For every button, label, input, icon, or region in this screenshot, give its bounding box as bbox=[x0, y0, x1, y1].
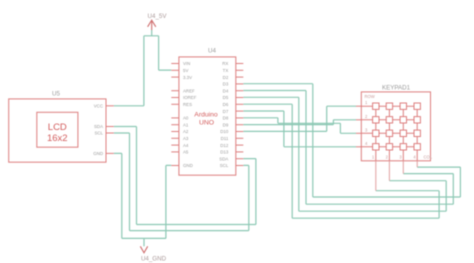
wire GND net: LCD GND down to bottom bus bbox=[114, 153, 122, 238]
svg-text:D5: D5 bbox=[223, 95, 229, 100]
svg-text:KEYPAD1: KEYPAD1 bbox=[382, 85, 411, 92]
wire D8 to keypad ROW3 bbox=[243, 118, 356, 134]
pin D7 bbox=[236, 110, 244, 112]
pin RES bbox=[171, 103, 179, 105]
pin SDA bbox=[106, 126, 114, 128]
svg-text:GND: GND bbox=[183, 163, 193, 168]
key squares bbox=[373, 103, 421, 150]
svg-text:AREF: AREF bbox=[183, 88, 195, 93]
svg-text:A2: A2 bbox=[183, 129, 189, 134]
row pin 2 bbox=[356, 119, 361, 121]
svg-text:UNO: UNO bbox=[199, 120, 214, 127]
wire 5V net: arrow stem to junction bbox=[144, 30, 159, 36]
svg-text:TX: TX bbox=[223, 68, 229, 73]
pin D8 bbox=[236, 117, 244, 119]
pin GND bbox=[106, 152, 114, 154]
pin SDA bbox=[236, 158, 244, 160]
wire D3 to keypad COL4 bbox=[243, 84, 460, 197]
pin A1 bbox=[171, 124, 179, 126]
svg-text:D6: D6 bbox=[223, 102, 229, 107]
pin D4 bbox=[236, 90, 244, 92]
svg-text:3.3V: 3.3V bbox=[183, 75, 192, 80]
wire D6 to keypad COL1 bbox=[243, 104, 439, 218]
wire GND net: bottom bus bbox=[122, 237, 166, 239]
wire 5V net: junction down to Arduino 5V pin bbox=[159, 36, 172, 70]
svg-text:16x2: 16x2 bbox=[47, 133, 68, 144]
svg-text:A3: A3 bbox=[183, 136, 189, 141]
svg-text:A5: A5 bbox=[183, 150, 189, 155]
svg-text:U4_GND: U4_GND bbox=[141, 256, 167, 263]
pin AREF bbox=[171, 90, 179, 92]
wire D5 to keypad COL2 bbox=[243, 97, 446, 211]
svg-text:SCL: SCL bbox=[94, 131, 103, 136]
wire D4 to keypad COL3 bbox=[243, 91, 453, 205]
wire GND net: riser up to Arduino GND pin bbox=[166, 165, 171, 238]
pin D12 bbox=[236, 144, 244, 146]
svg-text:D10: D10 bbox=[220, 129, 229, 134]
svg-text:U4: U4 bbox=[208, 48, 216, 55]
row pin 1 bbox=[356, 105, 361, 107]
power U4_5V bbox=[148, 13, 168, 30]
pin 3.3V bbox=[171, 76, 179, 78]
svg-text:LCD: LCD bbox=[48, 122, 67, 133]
pin VCC bbox=[106, 105, 114, 107]
col pin 2 bbox=[388, 161, 390, 181]
svg-text:VIN: VIN bbox=[183, 61, 190, 66]
wire GND net: stem to U4_GND arrow bbox=[143, 238, 145, 246]
pin D11 bbox=[236, 137, 244, 139]
svg-text:IOREF: IOREF bbox=[183, 95, 197, 100]
pin D10 bbox=[236, 131, 244, 133]
row pin 3 bbox=[356, 132, 361, 134]
pin A4 bbox=[171, 144, 179, 146]
wire D7 to keypad ROW4 bbox=[243, 111, 356, 147]
pin A2 bbox=[171, 131, 179, 133]
LCD U5 bbox=[9, 91, 114, 163]
pin D6 bbox=[236, 103, 244, 105]
svg-text:D13: D13 bbox=[220, 150, 229, 155]
svg-text:U5: U5 bbox=[52, 91, 60, 98]
pin D3 bbox=[236, 83, 244, 85]
svg-text:D12: D12 bbox=[220, 143, 229, 148]
svg-text:RX: RX bbox=[222, 61, 228, 66]
svg-text:SDA: SDA bbox=[94, 124, 103, 129]
col pin 4 bbox=[416, 161, 418, 167]
keypad row/col matrix lines bbox=[361, 106, 417, 147]
svg-text:A0: A0 bbox=[183, 116, 189, 121]
wire SCL net: Arduino SCL to LCD SCL bbox=[114, 133, 249, 231]
pin D13 bbox=[236, 151, 244, 153]
svg-text:5V: 5V bbox=[183, 68, 188, 73]
svg-text:SDA: SDA bbox=[219, 156, 228, 161]
pin GND bbox=[171, 165, 179, 167]
wire D9 to keypad ROW2 bbox=[243, 120, 356, 125]
svg-text:VCC: VCC bbox=[94, 104, 103, 109]
svg-text:U4_5V: U4_5V bbox=[148, 13, 168, 20]
svg-text:GND: GND bbox=[93, 151, 103, 156]
svg-text:D9: D9 bbox=[223, 122, 229, 127]
pin TX bbox=[236, 69, 244, 71]
pin A3 bbox=[171, 137, 179, 139]
svg-text:D2: D2 bbox=[223, 75, 229, 80]
pin 5V bbox=[171, 69, 179, 71]
svg-text:ROW: ROW bbox=[365, 94, 375, 99]
svg-text:RES: RES bbox=[183, 102, 192, 107]
pin SCL bbox=[106, 132, 114, 134]
col pin 3 bbox=[402, 161, 404, 174]
pin IOREF bbox=[171, 97, 179, 99]
pin A0 bbox=[171, 117, 179, 119]
Arduino UNO U4 bbox=[171, 48, 243, 176]
svg-text:D7: D7 bbox=[223, 109, 229, 114]
svg-text:D8: D8 bbox=[223, 116, 229, 121]
svg-text:COL: COL bbox=[424, 154, 433, 159]
svg-text:A1: A1 bbox=[183, 122, 189, 127]
wire D10 to keypad ROW1 bbox=[243, 106, 356, 131]
pin D5 bbox=[236, 97, 244, 99]
power U4_GND bbox=[140, 246, 166, 262]
keypad KEYPAD1 bbox=[356, 85, 433, 191]
svg-text:D11: D11 bbox=[221, 136, 229, 141]
pin RX bbox=[236, 63, 244, 65]
col pin 1 bbox=[375, 161, 377, 191]
pin VIN bbox=[171, 63, 179, 65]
svg-text:A4: A4 bbox=[183, 143, 189, 148]
pin D2 bbox=[236, 76, 244, 78]
wire SDA net: Arduino SDA to LCD SDA bbox=[114, 127, 256, 225]
pin A5 bbox=[171, 151, 179, 153]
row pin 4 bbox=[356, 146, 361, 148]
svg-text:D4: D4 bbox=[223, 88, 229, 93]
svg-text:SCL: SCL bbox=[220, 163, 229, 168]
svg-text:Arduino: Arduino bbox=[194, 112, 218, 119]
svg-text:D3: D3 bbox=[223, 82, 229, 87]
pin SCL bbox=[236, 165, 244, 167]
wire 5V net: junction down to LCD VCC bbox=[114, 36, 144, 106]
pin D9 bbox=[236, 124, 244, 126]
